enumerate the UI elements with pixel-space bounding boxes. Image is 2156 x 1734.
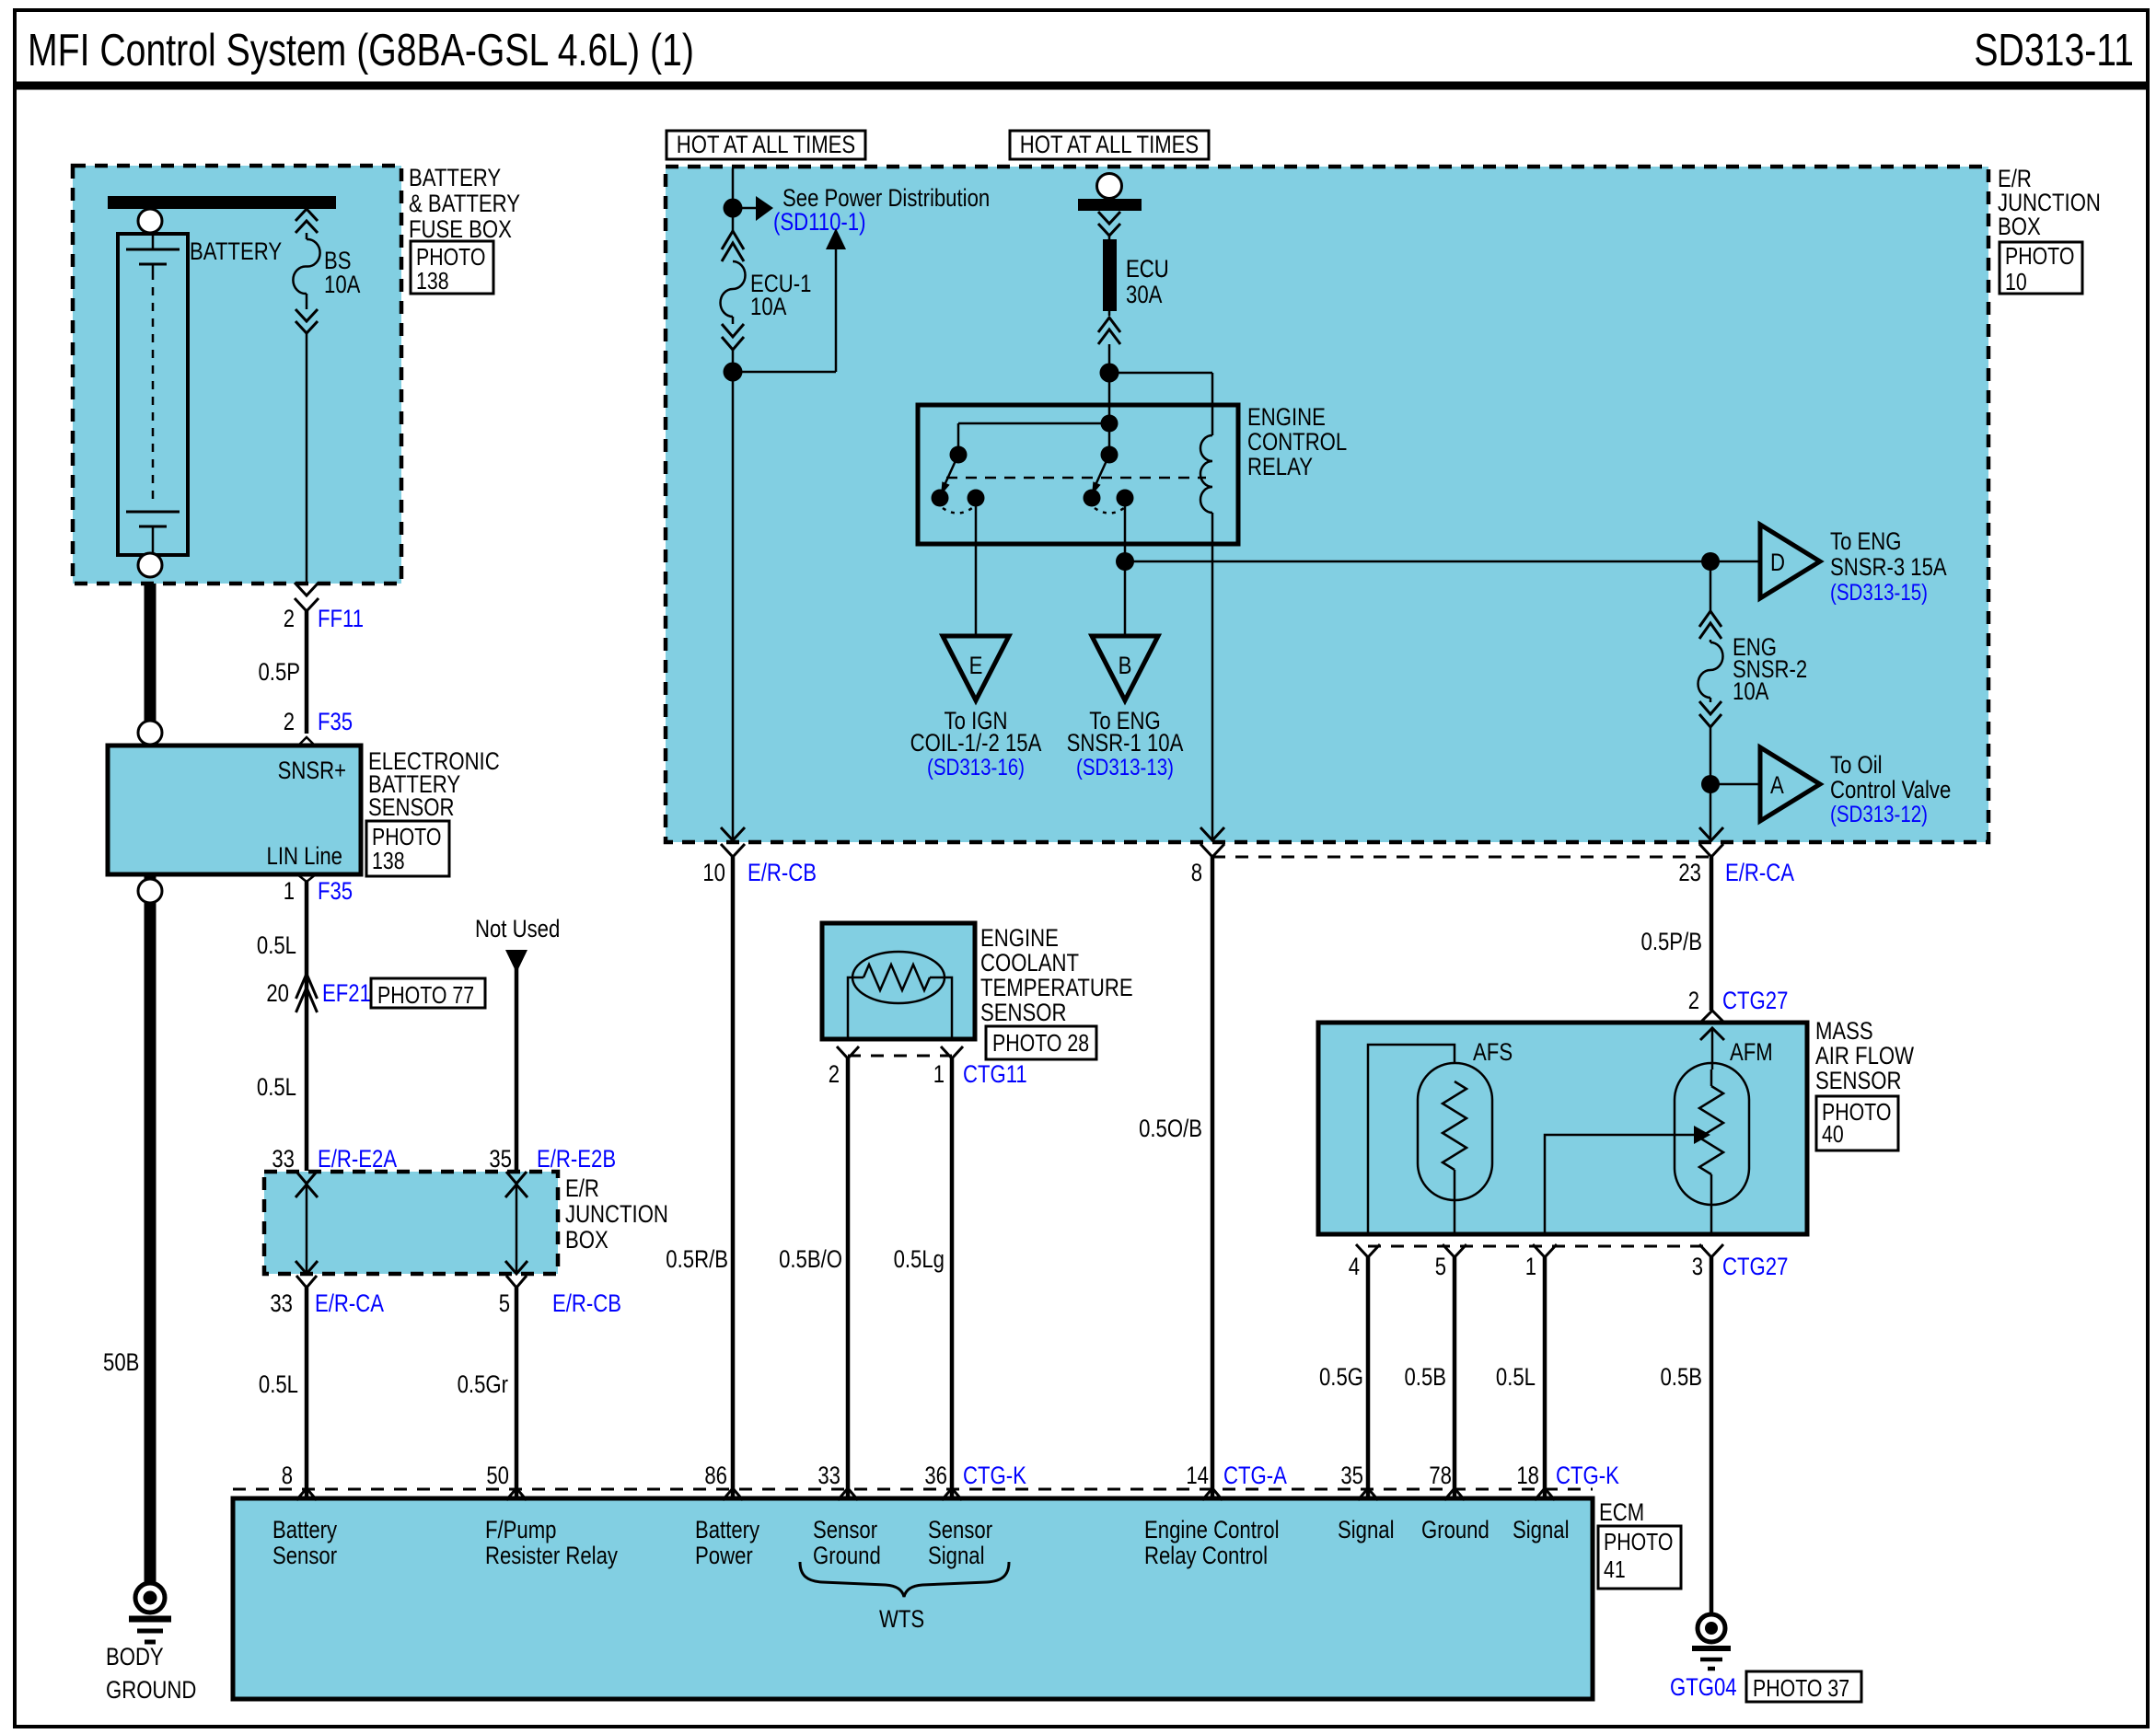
svg-text:33: 33 [272,1145,295,1173]
svg-text:0.5Lg: 0.5Lg [894,1245,945,1273]
svg-text:CONTROL: CONTROL [1247,428,1347,456]
svg-text:E/R-E2A: E/R-E2A [318,1145,397,1173]
svg-text:50: 50 [486,1462,509,1489]
svg-text:0.5B/O: 0.5B/O [779,1245,842,1273]
svg-text:CTG11: CTG11 [963,1060,1027,1088]
svg-text:AIR FLOW: AIR FLOW [1815,1042,1914,1069]
svg-text:0.5Gr: 0.5Gr [458,1370,508,1398]
svg-text:ENGINE: ENGINE [1247,403,1326,431]
svg-text:138: 138 [416,267,449,295]
svg-text:& BATTERY: & BATTERY [409,190,520,217]
svg-text:1: 1 [933,1060,945,1088]
svg-text:20: 20 [266,979,289,1007]
svg-text:BOX: BOX [565,1226,609,1254]
svg-text:(SD313-15): (SD313-15) [1830,580,1928,606]
svg-text:E/R-CB: E/R-CB [552,1289,621,1317]
svg-text:0.5L: 0.5L [257,931,296,959]
svg-text:F/Pump: F/Pump [485,1516,557,1543]
svg-text:2: 2 [284,605,295,632]
svg-text:18: 18 [1516,1462,1539,1489]
svg-text:To ENG: To ENG [1830,527,1902,555]
svg-text:SENSOR: SENSOR [1815,1067,1902,1094]
svg-text:8: 8 [1191,859,1202,886]
svg-text:Not Used: Not Used [475,915,560,942]
svg-text:(SD313-12): (SD313-12) [1830,802,1928,827]
svg-text:F35: F35 [318,708,353,735]
svg-text:Control Valve: Control Valve [1830,776,1951,803]
svg-text:AFM: AFM [1730,1038,1773,1066]
svg-text:SD313-11: SD313-11 [1974,26,2134,75]
svg-text:E/R: E/R [565,1174,599,1202]
svg-text:14: 14 [1186,1462,1209,1489]
svg-text:PHOTO 77: PHOTO 77 [377,981,474,1009]
svg-text:D: D [1770,549,1785,576]
svg-text:FUSE BOX: FUSE BOX [409,215,512,243]
svg-text:Battery: Battery [695,1516,760,1543]
svg-text:CTG27: CTG27 [1722,1253,1788,1280]
svg-text:Signal: Signal [1513,1516,1570,1543]
svg-text:ECM: ECM [1599,1498,1644,1526]
svg-text:35: 35 [1340,1462,1363,1489]
svg-text:E: E [969,652,983,679]
svg-text:GTG04: GTG04 [1670,1673,1737,1701]
svg-text:86: 86 [704,1462,727,1489]
svg-text:E/R-CA: E/R-CA [1725,859,1794,886]
svg-text:4: 4 [1349,1253,1360,1280]
svg-text:0.5L: 0.5L [1496,1363,1536,1391]
svg-text:1: 1 [284,877,295,905]
svg-text:RELAY: RELAY [1247,453,1313,480]
svg-text:F35: F35 [318,877,353,905]
svg-text:E/R-E2B: E/R-E2B [537,1145,616,1173]
svg-text:40: 40 [1822,1120,1844,1148]
svg-text:0.5P: 0.5P [259,658,301,686]
svg-text:1: 1 [1525,1253,1536,1280]
svg-text:3: 3 [1692,1253,1703,1280]
svg-text:10A: 10A [750,293,786,320]
svg-text:0.5L: 0.5L [257,1073,296,1101]
svg-text:Signal: Signal [928,1542,985,1569]
svg-text:(SD110-1): (SD110-1) [773,208,866,236]
svg-text:Signal: Signal [1338,1516,1395,1543]
svg-text:Resister Relay: Resister Relay [485,1542,618,1569]
svg-text:PHOTO: PHOTO [1604,1528,1673,1555]
svg-text:CTG27: CTG27 [1722,987,1788,1014]
svg-text:Relay Control: Relay Control [1144,1542,1268,1569]
svg-text:CTG-K: CTG-K [1556,1462,1619,1489]
svg-text:A: A [1770,771,1784,799]
svg-text:CTG-K: CTG-K [963,1462,1026,1489]
svg-text:MFI Control System (G8BA-GSL 4: MFI Control System (G8BA-GSL 4.6L) (1) [28,26,694,75]
svg-text:PHOTO: PHOTO [2005,242,2074,270]
svg-text:HOT AT ALL TIMES: HOT AT ALL TIMES [677,131,855,158]
svg-text:SNSR-3 15A: SNSR-3 15A [1830,553,1947,581]
svg-text:SENSOR: SENSOR [980,999,1067,1026]
svg-text:Ground: Ground [1421,1516,1489,1543]
svg-text:LIN Line: LIN Line [267,842,343,870]
svg-text:0.5R/B: 0.5R/B [666,1245,728,1273]
svg-text:Sensor: Sensor [813,1516,877,1543]
svg-text:30A: 30A [1126,281,1162,308]
svg-text:COIL-1/-2 15A: COIL-1/-2 15A [910,729,1042,757]
svg-text:BOX: BOX [1998,213,2041,240]
svg-text:(SD313-13): (SD313-13) [1076,755,1174,780]
svg-text:8: 8 [282,1462,293,1489]
svg-text:PHOTO 28: PHOTO 28 [992,1029,1089,1057]
svg-text:Power: Power [695,1542,753,1569]
svg-text:23: 23 [1678,859,1701,886]
svg-text:E/R-CB: E/R-CB [748,859,817,886]
svg-text:ENGINE: ENGINE [980,924,1059,952]
svg-text:Sensor: Sensor [272,1542,337,1569]
svg-text:0.5B: 0.5B [1661,1363,1703,1391]
svg-text:TEMPERATURE: TEMPERATURE [980,974,1133,1001]
svg-text:Battery: Battery [272,1516,338,1543]
svg-text:BATTERY: BATTERY [409,164,501,191]
svg-text:MASS: MASS [1815,1017,1873,1045]
svg-text:0.5O/B: 0.5O/B [1139,1115,1202,1142]
svg-text:Engine Control: Engine Control [1144,1516,1280,1543]
svg-text:HOT AT ALL TIMES: HOT AT ALL TIMES [1020,131,1199,158]
svg-text:50B: 50B [103,1348,139,1376]
svg-text:SENSOR: SENSOR [368,793,455,821]
svg-text:B: B [1119,652,1132,679]
svg-text:2: 2 [1688,987,1699,1014]
svg-text:5: 5 [499,1289,510,1317]
svg-text:PHOTO 37: PHOTO 37 [1753,1674,1849,1702]
svg-text:WTS: WTS [879,1605,924,1633]
svg-text:138: 138 [372,847,405,874]
svg-text:GROUND: GROUND [106,1676,196,1704]
svg-text:10A: 10A [1733,677,1768,705]
svg-text:33: 33 [817,1462,840,1489]
svg-text:78: 78 [1429,1462,1452,1489]
svg-text:ECU: ECU [1126,255,1169,283]
svg-text:10A: 10A [324,271,360,298]
svg-text:0.5L: 0.5L [259,1370,298,1398]
svg-text:FF11: FF11 [318,605,364,632]
svg-text:SNSR+: SNSR+ [278,757,346,784]
svg-text:JUNCTION: JUNCTION [565,1200,668,1228]
svg-text:EF21: EF21 [322,979,371,1007]
svg-text:BATTERY: BATTERY [190,237,282,265]
svg-text:2: 2 [284,708,295,735]
svg-text:36: 36 [924,1462,947,1489]
svg-text:33: 33 [270,1289,293,1317]
svg-text:5: 5 [1435,1253,1446,1280]
svg-text:(SD313-16): (SD313-16) [927,755,1025,780]
svg-text:0.5P/B: 0.5P/B [1641,928,1703,955]
svg-text:COOLANT: COOLANT [980,949,1079,977]
svg-text:35: 35 [489,1145,512,1173]
svg-text:Ground: Ground [813,1542,881,1569]
svg-text:10: 10 [702,859,725,886]
svg-text:AFS: AFS [1473,1038,1513,1066]
svg-text:41: 41 [1604,1555,1626,1583]
svg-text:Sensor: Sensor [928,1516,992,1543]
svg-text:2: 2 [829,1060,840,1088]
svg-text:E/R-CA: E/R-CA [315,1289,384,1317]
svg-text:0.5G: 0.5G [1319,1363,1363,1391]
svg-text:To Oil: To Oil [1830,751,1883,779]
svg-text:SNSR-1 10A: SNSR-1 10A [1067,729,1184,757]
svg-text:0.5B: 0.5B [1405,1363,1447,1391]
svg-text:CTG-A: CTG-A [1223,1462,1287,1489]
svg-text:10: 10 [2005,268,2027,295]
svg-text:BODY: BODY [106,1643,164,1670]
